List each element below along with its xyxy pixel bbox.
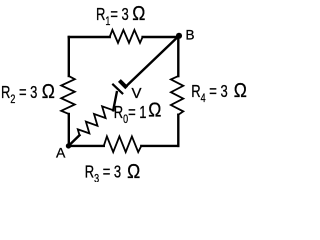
svg-text:V: V: [132, 85, 142, 102]
svg-text:Ω: Ω: [148, 99, 161, 122]
svg-text:R2 = 3: R2 = 3: [1, 83, 37, 106]
resistor R1: [110, 30, 143, 43]
label R3: [85, 163, 121, 186]
svg-text:R3 = 3: R3 = 3: [85, 163, 121, 182]
wire left-upper: [68, 37, 70, 76]
svg-text:Ω: Ω: [42, 81, 55, 104]
svg-text:R4 = 3: R4 = 3: [191, 82, 227, 105]
wire top-left: [69, 36, 110, 38]
wire A to R0: [69, 135, 80, 146]
wire right-upper: [177, 37, 179, 76]
wire R0 to cell: [113, 92, 117, 110]
resistor R2: [61, 76, 75, 114]
svg-text:B: B: [186, 28, 195, 43]
wire cell to B: [126, 36, 179, 87]
label R0 omega: [148, 99, 161, 122]
wire left-lower: [68, 114, 70, 146]
label R4: [191, 82, 227, 105]
svg-text:Ω: Ω: [132, 3, 145, 26]
resistor R4: [171, 76, 183, 115]
svg-text:Ω: Ω: [127, 161, 140, 182]
node B: [176, 33, 182, 39]
battery cell short plate: [121, 82, 126, 87]
resistor R0: [78, 106, 114, 135]
label R1: [96, 5, 129, 28]
svg-text:Ω: Ω: [234, 80, 247, 103]
label R3 omega: [127, 161, 140, 184]
label R1 omega: [132, 3, 145, 26]
wire bottom-left: [69, 145, 104, 147]
wire top-right: [143, 36, 179, 38]
svg-text:A: A: [56, 145, 66, 161]
node A: [66, 143, 71, 148]
label R4 omega: [234, 80, 247, 103]
svg-text:R1= 3: R1= 3: [96, 5, 129, 28]
battery cell long plate: [113, 85, 122, 94]
wire right-lower: [177, 115, 179, 146]
label R0: [114, 103, 147, 126]
resistor R3: [104, 136, 142, 152]
label R2 omega: [42, 81, 55, 104]
label R2: [1, 83, 37, 106]
svg-text:R0= 1: R0= 1: [114, 103, 147, 126]
wire bottom-right: [141, 145, 178, 147]
